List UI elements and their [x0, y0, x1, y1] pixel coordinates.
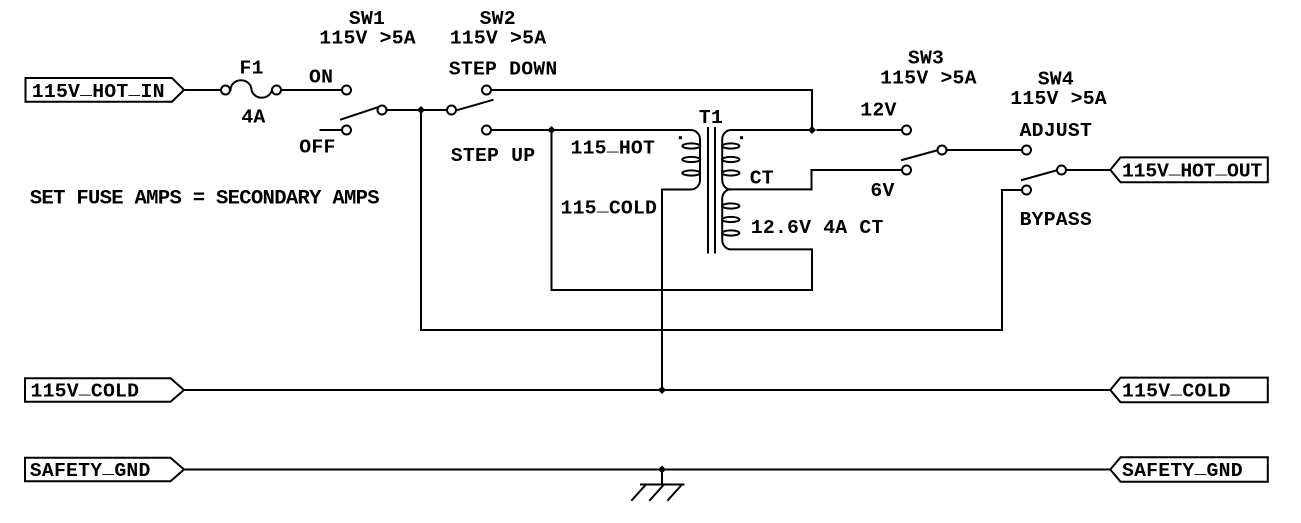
svg-text:SAFETY_GND: SAFETY_GND — [1122, 457, 1243, 482]
svg-text:4A: 4A — [241, 107, 265, 129]
svg-text:SET FUSE AMPS = SECONDARY AMPS: SET FUSE AMPS = SECONDARY AMPS — [30, 188, 380, 211]
svg-text:12V: 12V — [860, 100, 896, 122]
svg-text:115_COLD: 115_COLD — [561, 195, 658, 220]
svg-text:SAFETY_GND: SAFETY_GND — [30, 457, 151, 482]
svg-text:115V >5A: 115V >5A — [1010, 88, 1107, 110]
svg-text:ON: ON — [309, 67, 333, 89]
svg-text:STEP DOWN: STEP DOWN — [449, 58, 558, 80]
svg-text:115V >5A: 115V >5A — [450, 28, 547, 50]
svg-text:115V_COLD: 115V_COLD — [31, 378, 140, 403]
svg-text:BYPASS: BYPASS — [1020, 209, 1092, 231]
svg-text:115V_COLD: 115V_COLD — [1122, 378, 1231, 403]
svg-text:CT: CT — [750, 167, 774, 189]
svg-text:115_HOT: 115_HOT — [571, 135, 656, 160]
svg-text:115V_HOT_OUT: 115V_HOT_OUT — [1122, 158, 1262, 183]
svg-text:ADJUST: ADJUST — [1020, 120, 1092, 142]
svg-text:115V >5A: 115V >5A — [319, 28, 416, 50]
svg-text:115V >5A: 115V >5A — [880, 67, 977, 89]
svg-text:T1: T1 — [699, 107, 723, 129]
svg-text:F1: F1 — [240, 57, 264, 79]
svg-text:12.6V 4A CT: 12.6V 4A CT — [751, 217, 884, 239]
svg-text:115V_HOT_IN: 115V_HOT_IN — [32, 78, 165, 103]
svg-text:STEP UP: STEP UP — [451, 145, 536, 167]
svg-text:OFF: OFF — [299, 137, 335, 159]
svg-text:6V: 6V — [870, 180, 894, 202]
